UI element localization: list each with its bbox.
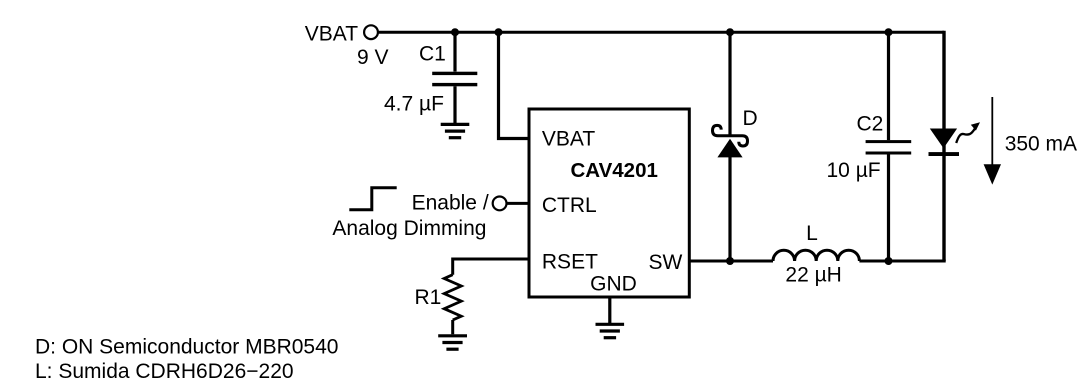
wire SW rail (inductor to LED branch) (859, 260, 945, 263)
svg-text:D: ON Semiconductor MBR0540: D: ON Semiconductor MBR0540 (35, 336, 338, 359)
D schottky cathode bar with hooks (713, 125, 748, 146)
svg-text:22 µH: 22 µH (785, 264, 841, 287)
terminal VBAT (open circle) (364, 25, 378, 39)
wire RSET pin (453, 259, 529, 275)
resistor R1 (444, 275, 461, 320)
svg-text:4.7 µF: 4.7 µF (384, 93, 444, 116)
svg-text:CAV4201: CAV4201 (571, 159, 658, 182)
LED (triangle down + bar) (929, 129, 960, 157)
LED emission squiggle arrow (956, 122, 980, 143)
wire SW rail (box to inductor) (690, 260, 774, 263)
inductor L (773, 250, 859, 261)
wire D cathode lead (top) (728, 32, 731, 136)
junction dot at C1 (451, 28, 459, 36)
C1 bottom plate (432, 83, 477, 86)
svg-text:Enable /: Enable / (412, 191, 489, 214)
junction dot at C2 branch (top) (885, 28, 893, 36)
svg-text:VBAT: VBAT (305, 23, 358, 46)
wire C2 bottom lead (887, 155, 890, 262)
wire C1 bottom lead (453, 86, 456, 123)
wire CTRL pin (507, 202, 530, 205)
svg-text:C1: C1 (419, 43, 446, 66)
junction dot C2 at SW rail (885, 257, 893, 265)
capacitor C2 (866, 32, 912, 261)
junction dot diode D at SW rail (726, 257, 734, 265)
svg-text:L: L (806, 222, 818, 245)
wire C1 top lead (453, 32, 456, 71)
enable step waveform (349, 188, 396, 210)
wire GND pin (608, 297, 611, 323)
ground (R1) (438, 336, 467, 349)
svg-text:9 V: 9 V (357, 46, 389, 69)
svg-text:350 mA: 350 mA (1005, 133, 1077, 156)
wire C2 top lead (887, 32, 890, 140)
C2 bottom plate (866, 152, 912, 155)
svg-text:R1: R1 (415, 286, 442, 309)
svg-text:L: Sumida CDRH6D26−220: L: Sumida CDRH6D26−220 (35, 360, 294, 383)
svg-text:Analog Dimming: Analog Dimming (332, 217, 486, 240)
wire VBAT pin drop (499, 32, 530, 138)
wire R1 bottom lead (451, 320, 454, 334)
junction dot at diode D branch (top) (726, 28, 734, 36)
svg-text:SW: SW (648, 251, 682, 274)
wire D anode lead (bottom) (728, 157, 731, 261)
D triangle (anode, pointing up) (717, 139, 742, 158)
svg-text:RSET: RSET (542, 250, 598, 273)
svg-text:VBAT: VBAT (542, 127, 595, 150)
wire right branch (LED) vertical (942, 31, 945, 261)
ground (C1) (441, 124, 470, 137)
svg-text:CTRL: CTRL (542, 194, 597, 217)
diode D (Schottky MBR0540) (713, 32, 748, 261)
junction dot at VBAT pin drop (495, 28, 503, 36)
capacitor C1 (432, 32, 477, 123)
terminal CTRL (open circle) (493, 197, 507, 211)
svg-text:D: D (743, 107, 758, 130)
svg-text:10 µF: 10 µF (827, 159, 881, 182)
svg-text:GND: GND (590, 273, 637, 296)
svg-text:C2: C2 (857, 112, 884, 135)
wire top rail VBAT (378, 31, 944, 34)
current arrow 350 mA (984, 97, 1001, 185)
C2 top plate (866, 140, 912, 143)
IC U1 CAV4201 box (529, 109, 689, 297)
ground (GND pin) (596, 324, 625, 337)
C1 top plate (432, 72, 477, 75)
